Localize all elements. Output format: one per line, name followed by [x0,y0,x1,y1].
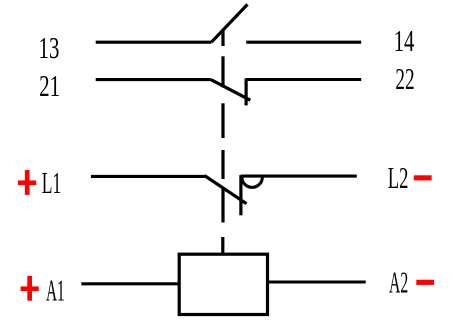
svg-text:L1: L1 [42,167,61,200]
polarity minus at L2 [414,175,432,180]
wire A2 right [268,280,366,283]
main contact L1-L2 stop bar [239,175,242,215]
NC contact 21-22 stop bar [245,78,248,105]
wire L1 left [91,175,204,178]
wire 14 right [246,41,361,44]
svg-text:13: 13 [39,30,60,65]
svg-text:A2: A2 [389,266,408,300]
svg-text:A1: A1 [46,274,65,308]
main contact arc (load-break semicircle) [242,177,262,187]
wire 21 left [96,78,211,81]
wire 22 right [246,78,361,81]
polarity plus at A1 [21,276,39,301]
wire L2 right [241,175,357,178]
svg-text:14: 14 [394,24,415,58]
wire 13 left [96,41,212,44]
NC contact 21-22 movable arm [211,80,251,101]
polarity plus at L1 [18,170,36,195]
coil linkage stub [221,237,224,254]
coil K rectangle [179,254,267,314]
main contact L1-L2 movable arm [204,176,246,204]
wire A1 left [81,282,179,285]
svg-text:L2: L2 [388,160,409,195]
polarity minus at A2 [416,280,434,285]
svg-text:21: 21 [39,68,60,103]
mechanical linkage dashed line [221,30,224,223]
svg-text:22: 22 [395,62,414,97]
NO contact 13-14 movable arm [211,4,247,42]
